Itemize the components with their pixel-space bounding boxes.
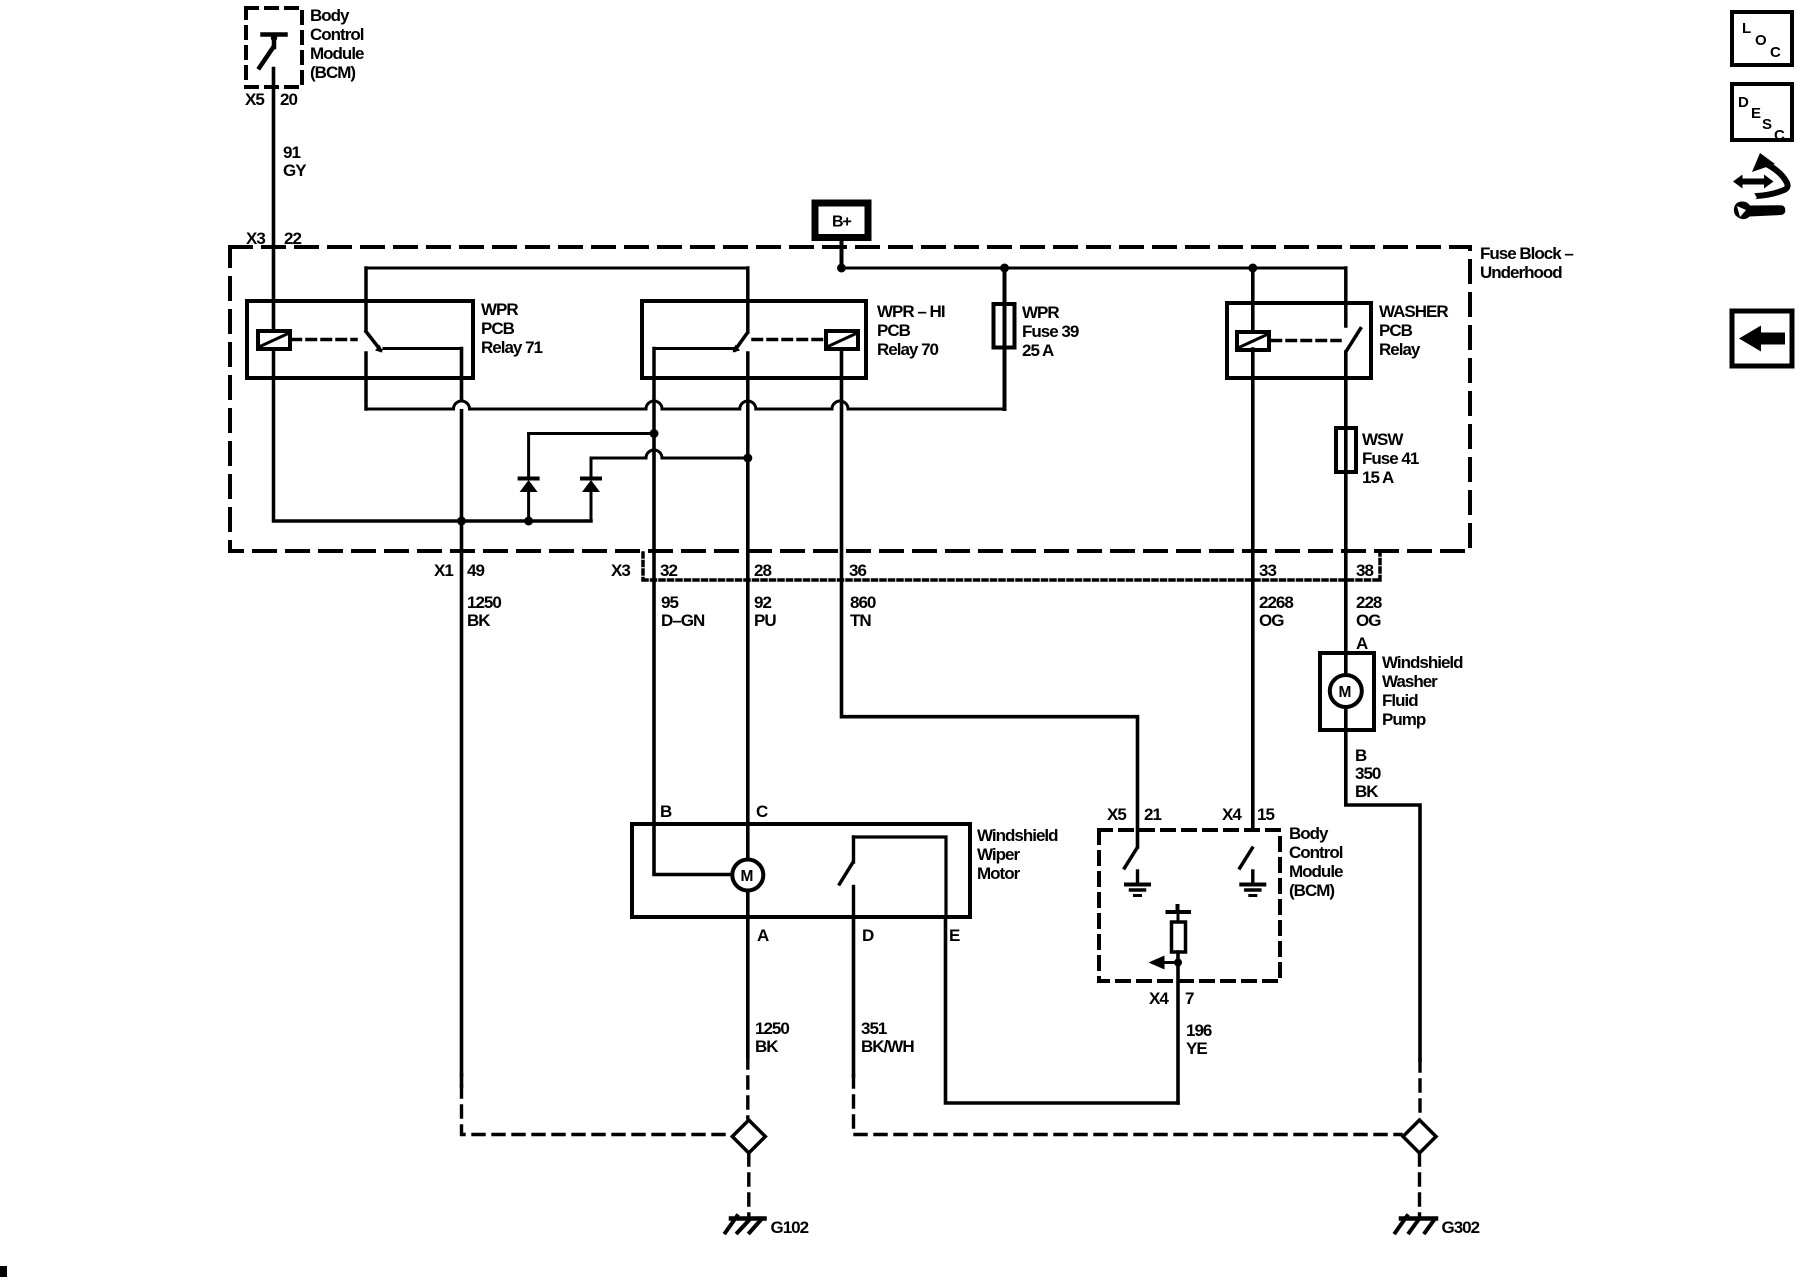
washer relay coil wire (2268 OG) down to BCM — [1251, 268, 1255, 830]
svg-text:X1: X1 — [434, 561, 453, 580]
svg-text:D–GN: D–GN — [661, 611, 705, 630]
svg-text:WASHER: WASHER — [1379, 302, 1448, 321]
motor park switch blade — [840, 863, 853, 884]
relay 70 coil — [826, 331, 858, 349]
svg-text:C: C — [1774, 127, 1785, 144]
svg-text:GY: GY — [283, 161, 307, 180]
wire motor pin E down elbow to 196 YE — [946, 917, 1179, 1103]
svg-text:91: 91 — [283, 143, 300, 162]
svg-text:Fuse 39: Fuse 39 — [1022, 322, 1079, 341]
wire 860 TN: relay70 coil down, elbow right, down to BCM X5-21 — [842, 349, 1138, 847]
relay 70 WPR-HI PCB Relay box — [642, 301, 866, 378]
label WPR Fuse 39 25 A — [1022, 303, 1079, 360]
svg-text:B: B — [1355, 746, 1367, 765]
svg-text:WSW: WSW — [1362, 430, 1404, 449]
svg-text:M: M — [1339, 684, 1352, 701]
svg-text:Relay: Relay — [1379, 340, 1421, 359]
pin labels X5 21 X4 15 — [1107, 805, 1274, 824]
motor park switch lower stub (pin D) — [852, 887, 855, 918]
wire 91 GY from BCM X5-20 down to relay 71 coil — [272, 69, 276, 332]
wire B+ bus to washer relay — [840, 267, 1346, 270]
svg-text:Body: Body — [310, 6, 350, 25]
svg-text:D: D — [862, 926, 874, 945]
node junction washer coil top — [1248, 264, 1257, 273]
BCM top-left internal switch blade — [260, 47, 274, 67]
BCM (top-left) dashed box — [246, 8, 302, 87]
washer relay switch blade — [1347, 329, 1361, 351]
svg-text:PCB: PCB — [1379, 321, 1413, 340]
svg-text:O: O — [1755, 32, 1767, 49]
svg-text:BK: BK — [1355, 782, 1379, 801]
svg-text:C: C — [1770, 44, 1781, 61]
fuse 39 WPR 25A — [994, 304, 1015, 348]
wire X1-49 1250BK dashed bottom — [460, 1075, 464, 1086]
BCM resistor wire — [1177, 912, 1180, 922]
wire B+ down — [840, 238, 844, 268]
svg-text:X3: X3 — [611, 561, 630, 580]
relay 71 coil — [258, 331, 290, 349]
relay 70 blade arrowhead — [733, 345, 741, 353]
BCM bottom dashed box — [1099, 830, 1280, 981]
node dot 654,433.5 — [650, 429, 659, 438]
label WPR-HI PCB Relay 70 — [877, 302, 945, 359]
splice diamond G302 — [1403, 1120, 1436, 1153]
svg-text:7: 7 — [1185, 989, 1194, 1008]
svg-text:Washer: Washer — [1382, 672, 1438, 691]
wire 92 PU down to motor pin C — [746, 458, 750, 860]
label 91 GY — [283, 143, 307, 180]
svg-text:Windshield: Windshield — [1382, 653, 1463, 672]
labels 351 BK/WH — [861, 1019, 914, 1056]
icon DESC box — [1732, 84, 1792, 140]
svg-text:Wiper: Wiper — [977, 845, 1020, 864]
svg-text:32: 32 — [660, 561, 677, 580]
svg-text:860: 860 — [850, 593, 876, 612]
splice diamond G102 — [732, 1120, 765, 1153]
svg-text:Module: Module — [310, 44, 364, 63]
washer relay lower wire to fuse 41 — [1344, 352, 1348, 675]
svg-text:BK/WH: BK/WH — [861, 1037, 914, 1056]
wire dashed below G102 diamond — [747, 1154, 750, 1216]
washer relay dashed actuation line — [1272, 339, 1340, 343]
wire motor pin D down (351 BK/WH) — [852, 917, 856, 1076]
svg-text:X4: X4 — [1222, 805, 1242, 824]
wire D2 to 92PU vertical (hop over 654) — [591, 450, 748, 458]
scan artifact bottom-left — [0, 1266, 7, 1277]
svg-text:BK: BK — [755, 1037, 779, 1056]
pin label X5 20 — [245, 90, 297, 109]
svg-text:36: 36 — [849, 561, 866, 580]
motor pin labels B C A D E — [660, 802, 960, 945]
wire top feed (relay71 to relay70) — [366, 267, 748, 270]
svg-text:95: 95 — [661, 593, 678, 612]
node BCM switch dot — [271, 35, 277, 41]
svg-text:(BCM): (BCM) — [1289, 881, 1334, 900]
node junction B+ — [837, 264, 846, 273]
icon navigation arrows — [1733, 153, 1788, 219]
wire dashed above G302 diamond — [1418, 1060, 1421, 1118]
svg-text:Fuse 41: Fuse 41 — [1362, 449, 1419, 468]
labels 1250 BK bottom — [755, 1019, 789, 1056]
svg-text:Fuse Block –: Fuse Block – — [1480, 244, 1573, 263]
BCM wiper arrow — [1163, 961, 1178, 964]
washer relay box — [1227, 303, 1371, 378]
relay 70 contact drop wire — [652, 349, 656, 434]
icon LOC box — [1732, 12, 1792, 65]
wire fuse39 vertical — [1003, 268, 1007, 409]
svg-text:X4: X4 — [1149, 989, 1169, 1008]
relay 71 blade arrowhead — [375, 345, 383, 353]
BCM resistor body — [1172, 922, 1186, 952]
label A (pump pin) — [1356, 634, 1368, 653]
svg-text:351: 351 — [861, 1019, 887, 1038]
BCM ground 2 — [1251, 871, 1254, 884]
svg-text:PCB: PCB — [877, 321, 911, 340]
wire D1 to 95DGN vertical — [529, 432, 654, 435]
svg-text:Relay 70: Relay 70 — [877, 340, 939, 359]
svg-text:Module: Module — [1289, 862, 1343, 881]
label WSW Fuse 41 15 A — [1362, 430, 1419, 487]
diode D2 — [590, 492, 593, 521]
svg-text:A: A — [757, 926, 769, 945]
svg-text:TN: TN — [850, 611, 871, 630]
label WASHER PCB Relay — [1379, 302, 1448, 359]
labels 196 YE — [1186, 1021, 1212, 1058]
svg-text:21: 21 — [1144, 805, 1161, 824]
svg-text:C: C — [756, 802, 768, 821]
svg-text:Motor: Motor — [977, 864, 1021, 883]
wire motor pin C lower / 1250 BK to G102 — [746, 891, 750, 1058]
svg-text:A: A — [1356, 634, 1368, 653]
labels 350 BK — [1355, 764, 1381, 801]
motor M circle — [732, 860, 763, 891]
svg-text:E: E — [949, 926, 960, 945]
fuse 41 WSW 15A — [1336, 428, 1356, 472]
svg-text:Control: Control — [310, 25, 364, 44]
svg-text:Fluid: Fluid — [1382, 691, 1418, 710]
wire pump B down elbow right down to G302 — [1346, 707, 1420, 1060]
washer relay coil — [1237, 332, 1269, 350]
relay 71 switch blade — [366, 332, 381, 351]
svg-text:YE: YE — [1186, 1039, 1207, 1058]
svg-text:OG: OG — [1259, 611, 1284, 630]
relay 71 WPR PCB Relay box — [247, 301, 473, 378]
label Body Control Module (BCM) top-left — [310, 6, 364, 82]
Fuse Block Underhood dashed border — [230, 247, 1470, 551]
relay 70 fixed contact — [654, 347, 736, 350]
svg-text:G302: G302 — [1442, 1218, 1480, 1237]
svg-text:15: 15 — [1257, 805, 1274, 824]
relay 70 coil dashed actuation line — [753, 338, 822, 342]
relay 70 switch common wire (from top feed) — [746, 268, 750, 332]
relay 71 fixed contact — [384, 347, 462, 350]
label Fuse Block - Underhood — [1480, 244, 1573, 282]
svg-text:28: 28 — [754, 561, 771, 580]
wire labels row — [467, 593, 1382, 630]
svg-text:228: 228 — [1356, 593, 1382, 612]
BCM resistor T top — [1168, 906, 1190, 912]
svg-text:15 A: 15 A — [1362, 468, 1394, 487]
B+ terminal box — [815, 203, 868, 238]
motor park switch upper stub — [852, 837, 855, 862]
node dot at 461.5,521 — [457, 517, 466, 526]
svg-text:1250: 1250 — [755, 1019, 789, 1038]
svg-text:49: 49 — [467, 561, 484, 580]
svg-text:Relay 71: Relay 71 — [481, 338, 543, 357]
svg-text:WPR: WPR — [1022, 303, 1059, 322]
svg-text:1250: 1250 — [467, 593, 501, 612]
connector X3 dotted bracket — [643, 551, 1380, 580]
svg-text:Windshield: Windshield — [977, 826, 1058, 845]
BCM ground 1 — [1136, 871, 1139, 884]
svg-text:WPR: WPR — [481, 300, 518, 319]
svg-text:38: 38 — [1356, 561, 1373, 580]
windshield washer fluid pump box — [1320, 653, 1374, 730]
BCM top-left internal switch contact bar — [263, 35, 286, 48]
svg-text:BK: BK — [467, 611, 491, 630]
svg-text:B: B — [660, 802, 672, 821]
svg-text:Control: Control — [1289, 843, 1343, 862]
svg-text:33: 33 — [1259, 561, 1276, 580]
pump M circle — [1330, 675, 1362, 707]
svg-text:Pump: Pump — [1382, 710, 1426, 729]
node dot 747.8,458 — [743, 454, 752, 463]
wire motor A dashed to G102 — [746, 1057, 749, 1118]
label Windshield Washer Fluid Pump — [1382, 653, 1463, 729]
icon back arrow box — [1732, 311, 1792, 366]
ground symbol G302 — [1401, 1216, 1436, 1221]
label B pump pin — [1355, 746, 1367, 765]
wire 95 D-GN down to motor pin B — [654, 434, 733, 875]
label Windshield Wiper Motor — [977, 826, 1058, 883]
relay 71 NC lower wire to bus — [364, 353, 368, 409]
label WPR PCB Relay 71 — [481, 300, 543, 357]
svg-text:PU: PU — [754, 611, 776, 630]
svg-text:WPR – HI: WPR – HI — [877, 302, 945, 321]
diode D1 — [527, 492, 530, 521]
label Body Control Module (BCM) bottom — [1289, 824, 1343, 900]
svg-text:X5: X5 — [1107, 805, 1126, 824]
svg-text:Underhood: Underhood — [1480, 263, 1562, 282]
svg-text:X5: X5 — [245, 90, 264, 109]
node junction fuse39 top — [1000, 264, 1009, 273]
connector row labels X1 49 / X3 32 28 36 33 38 — [434, 561, 1373, 580]
BCM switch 1 blade — [1125, 848, 1138, 868]
wire motor D dashed to G302 — [854, 1076, 1402, 1135]
svg-text:92: 92 — [754, 593, 771, 612]
wire relay71 NO contact down (1250 BK / X1 49) — [460, 349, 464, 1076]
svg-text:G102: G102 — [771, 1218, 809, 1237]
svg-text:196: 196 — [1186, 1021, 1212, 1040]
wire 91GY elbow to diodes — [274, 349, 592, 521]
pin label X4 7 — [1149, 989, 1194, 1008]
svg-text:350: 350 — [1355, 764, 1381, 783]
svg-text:PCB: PCB — [481, 319, 515, 338]
svg-text:Body: Body — [1289, 824, 1329, 843]
svg-text:S: S — [1762, 116, 1772, 133]
svg-text:25 A: 25 A — [1022, 341, 1054, 360]
svg-text:E: E — [1751, 105, 1761, 122]
relay 71 coil dashed actuation line — [292, 338, 356, 342]
pin label X3 22 — [246, 229, 301, 248]
windshield wiper motor box — [632, 824, 970, 917]
svg-text:20: 20 — [280, 90, 297, 109]
bus from relay71 NC to fuse39 bottom with hops — [366, 401, 1005, 409]
node dot at 528.6,521 — [524, 517, 533, 526]
svg-text:D: D — [1738, 94, 1749, 111]
washer relay switch top wire — [1344, 268, 1348, 326]
relay 70 switch blade — [735, 333, 747, 350]
relay 70 lower pivot wire down (92 PU) — [746, 353, 750, 458]
svg-text:2268: 2268 — [1259, 593, 1293, 612]
motor park switch L wire to pin E — [854, 837, 947, 917]
wire 196 YE vertical — [1176, 952, 1180, 1103]
svg-text:L: L — [1742, 20, 1751, 37]
svg-text:M: M — [741, 868, 754, 885]
wire dashed below G302 diamond — [1418, 1154, 1421, 1216]
svg-text:B+: B+ — [832, 214, 852, 231]
svg-text:OG: OG — [1356, 611, 1381, 630]
relay 71 switch common wire — [364, 268, 368, 331]
svg-text:(BCM): (BCM) — [310, 63, 355, 82]
ground symbol G102 — [731, 1216, 765, 1221]
BCM switch 2 blade — [1240, 848, 1253, 868]
